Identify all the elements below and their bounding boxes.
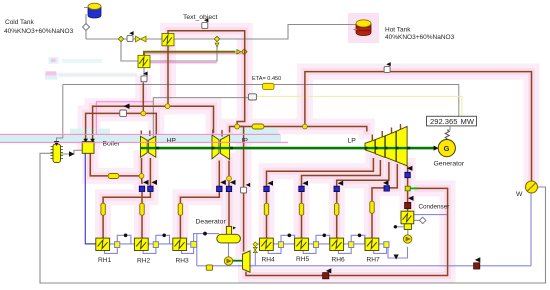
- heat exchanger HX1: [162, 34, 174, 46]
- MW display box: [427, 116, 477, 126]
- turbine HP: [141, 131, 156, 158]
- svg-text:LP: LP: [348, 138, 357, 145]
- pipe IP exhaust left to RH3: [180, 161, 219, 239]
- magenta highlight overlay: [0, 134, 288, 142]
- feed line RH4-RH7: [255, 243, 383, 245]
- svg-text:W: W: [516, 191, 523, 198]
- grey signal lines (power / eta): [57, 85, 459, 143]
- boiler inlet arrows: [83, 139, 95, 143]
- valve under HX2 flag: [141, 71, 148, 81]
- valve VE7 to RH7: [370, 201, 374, 213]
- shaft dashes: [156, 147, 410, 150]
- feed line RH1-RH3: [96, 243, 191, 245]
- pipe LP extraction 2 to RH5: [302, 160, 381, 238]
- RH5: [295, 234, 330, 254]
- svg-text:Hot Tank: Hot Tank: [385, 27, 411, 34]
- valve VE4 to RH4: [264, 203, 268, 215]
- receiver to boiler link: [61, 150, 83, 154]
- pipe dotB to boiler: [93, 106, 168, 141]
- ETA display box: [263, 83, 275, 89]
- wire cold tank down: [85, 14, 87, 39]
- pipe dotA to HP inlet: [143, 113, 156, 135]
- arrow lavender red square: [475, 257, 481, 262]
- pipe condenser cooling loop: [246, 188, 448, 275]
- svg-text:RH1: RH1: [98, 257, 112, 264]
- svg-text:40%KNO3+60%NaNO3: 40%KNO3+60%NaNO3: [385, 34, 455, 41]
- svg-text:RH3: RH3: [176, 258, 190, 265]
- deaerator drum: [217, 226, 241, 243]
- wire eta to receiver: [57, 85, 63, 143]
- boiler: [82, 142, 94, 154]
- RH3: [173, 232, 219, 254]
- sensor P2 HP extraction right: [148, 186, 153, 191]
- svg-text:RH2: RH2: [137, 258, 151, 265]
- arrow HP exhaust right: [152, 180, 158, 185]
- arrow IP exhaust right: [230, 180, 236, 185]
- RH1: [96, 234, 131, 254]
- pipe LP extraction 4 to RH7: [372, 164, 397, 238]
- pipe IP exhaust right to deaerator: [228, 161, 230, 227]
- brown steam/salt pipes: [86, 31, 532, 276]
- green dash at condenser loop: [411, 187, 418, 189]
- flow element F2 bottom steam line: [323, 273, 329, 279]
- royal blue feedwater from boiler: [85, 153, 96, 244]
- svg-text:RH5: RH5: [296, 256, 310, 263]
- condenser diamond: [419, 217, 426, 223]
- node C cold reheat: [139, 174, 144, 179]
- drum to pump: [228, 243, 230, 257]
- RH2: [134, 234, 169, 254]
- arrow IP exhaust left: [220, 180, 226, 185]
- arrow above condenser: [408, 196, 414, 201]
- W pump: [526, 181, 538, 193]
- svg-text:Condenser: Condenser: [419, 204, 450, 211]
- svg-text:MW: MW: [461, 117, 475, 126]
- flag on W pump line: [384, 62, 391, 72]
- condensate pump to RH7: [388, 247, 408, 258]
- feedwater heaters RH1-RH7: [96, 232, 389, 254]
- pipe dotA to boiler: [86, 113, 144, 141]
- svg-text:G: G: [444, 144, 450, 153]
- arrow RH5 line: [303, 181, 309, 186]
- generator spring link: [445, 130, 449, 141]
- wire junction down to HX2: [121, 39, 138, 61]
- valve VE2 to RH2: [140, 203, 144, 215]
- arrow bottom brown line: [326, 268, 332, 273]
- hot tank: [354, 20, 372, 36]
- junction sensor above condenser: [405, 186, 410, 191]
- arrow RH4 line: [268, 181, 274, 186]
- wire under MW box: [447, 126, 450, 130]
- arrow on boiler top line: [124, 104, 130, 110]
- recirc drop valve: [253, 247, 257, 252]
- arrow HP exhaust left: [143, 180, 149, 185]
- svg-text:Text_object: Text_object: [183, 14, 217, 21]
- yellow down arrow under junction: [215, 43, 219, 47]
- sensor P7 LP extraction 3: [334, 186, 339, 191]
- pipe boiler reheat: [90, 153, 141, 176]
- RH labels: [98, 256, 380, 265]
- wire HX2 bottom to valve: [143, 68, 145, 76]
- pipe crossover IP-LP: [230, 127, 367, 133]
- green shaft deaerator pump: [233, 260, 243, 262]
- faint highlighted annotations: [45, 57, 137, 79]
- valve VE5 to RH5: [299, 203, 303, 215]
- svg-text:RH6: RH6: [332, 257, 346, 264]
- condenser diamond link: [414, 219, 420, 221]
- pipe BFP turbine steam: [237, 127, 244, 252]
- deaerator pump: [224, 257, 232, 265]
- olive hot-salt line: [144, 52, 236, 56]
- sensor P5 LP extraction 1: [264, 186, 269, 191]
- sensor P3 IP extraction left: [217, 186, 222, 191]
- pipe HX1 to dotB: [167, 46, 169, 106]
- Text_object flag: [202, 18, 209, 28]
- turbine LP multistage: [365, 124, 407, 166]
- arrow RH7 line: [383, 180, 389, 185]
- node A HP inlet branch: [141, 111, 146, 116]
- grey molten-salt loop wires: [86, 14, 357, 76]
- BFP turbine: [243, 251, 251, 272]
- valve V1 bowtie: [136, 36, 147, 42]
- dot on deaerator feed line: [203, 232, 207, 236]
- valve VE3 to RH3: [178, 203, 182, 215]
- wire HX2 right loop up: [150, 47, 217, 61]
- pipe LP exhaust to condenser: [407, 166, 409, 211]
- svg-text:292.365: 292.365: [430, 117, 457, 126]
- lavender condensate lines: [96, 193, 531, 266]
- pipe HP exhaust right to RH1: [103, 158, 150, 238]
- white square on boiler second line: [120, 110, 127, 117]
- pipe HP exhaust left to RH2: [141, 158, 144, 238]
- yellow signal line: [257, 96, 462, 116]
- pink halos under hot (brown) pipes: [86, 13, 532, 276]
- condenser: [401, 211, 414, 229]
- sensor P8 LP extraction 4: [384, 186, 389, 191]
- svg-text:Generator: Generator: [434, 161, 465, 168]
- arrow into receiver: [54, 141, 59, 146]
- valve VE1 to RH1: [101, 203, 105, 215]
- condenser to pump: [407, 230, 409, 235]
- green shaft: [148, 147, 436, 149]
- generator G1: [438, 140, 455, 157]
- valve VE6 to RH6: [335, 203, 339, 215]
- svg-text:Boiler: Boiler: [103, 141, 121, 148]
- pipe to W pump: [305, 72, 532, 181]
- main condensate line: [197, 265, 531, 267]
- olive diamond: [242, 49, 247, 55]
- heat exchanger HX2: [138, 55, 150, 67]
- hotwell level tap: [396, 226, 404, 228]
- wire junction to valve and HX1: [121, 38, 162, 40]
- yellow diamond junctions on salt line: [118, 36, 123, 41]
- valve V1 actuator flag: [127, 31, 134, 41]
- svg-text:40%KNO3+60%NaNO3: 40%KNO3+60%NaNO3: [4, 28, 74, 35]
- node D IP extraction: [227, 176, 232, 181]
- svg-text:HP: HP: [167, 138, 177, 145]
- wire to junction: [86, 38, 121, 40]
- valve crossover oval: [252, 124, 264, 129]
- wire HP speed sensor: [153, 98, 248, 141]
- node F crossover riser: [303, 124, 308, 129]
- extraction black arrows: [143, 166, 480, 274]
- node B superheater outlet: [165, 104, 170, 109]
- pipe LP extraction 3 to RH6: [337, 162, 389, 238]
- sensor P4 IP extraction right: [226, 186, 231, 191]
- pipe LP extraction 1 to RH4: [267, 158, 374, 238]
- wire eta bus: [63, 85, 459, 117]
- white diamond on cold tank line: [83, 24, 90, 31]
- receiver (hatched heater): [51, 144, 64, 163]
- arrow before generator: [434, 146, 439, 151]
- pipe HX2 valve to dotA: [142, 83, 144, 114]
- condenser right line: [414, 214, 448, 216]
- svg-text:Deaerator: Deaerator: [196, 219, 227, 226]
- W pump drop: [530, 193, 532, 266]
- condensate pump: [403, 235, 411, 243]
- wire HX1 to hot tank: [174, 25, 357, 40]
- pipe HX1 reheat loop: [168, 31, 245, 127]
- recirc drop diamond junction: [253, 242, 258, 247]
- magenta highlight lines: [96, 54, 244, 134]
- grey cooling water loop: [40, 153, 546, 283]
- turbine IP: [212, 130, 230, 160]
- sensor P9 LP exhaust: [405, 172, 410, 177]
- flow element F3 condensate line: [474, 263, 480, 269]
- flow element F1 condenser inlet: [405, 202, 411, 208]
- pipe dotB to IP inlet: [168, 106, 214, 133]
- svg-text:RH4: RH4: [262, 257, 276, 264]
- signal converter box: [248, 94, 256, 100]
- valve reheat oval: [108, 174, 119, 179]
- olive arrow: [237, 50, 241, 54]
- BFP steam flag: [241, 183, 251, 193]
- RH6: [330, 234, 365, 254]
- sensor P1 HP extraction left: [139, 186, 144, 191]
- cyan selection band across turbine row: [0, 135, 281, 142]
- arrow RH7 drain: [394, 255, 399, 260]
- cold tank: [84, 3, 101, 18]
- RH4: [260, 234, 295, 254]
- arrow LP exhaust: [407, 166, 413, 171]
- pump recirculation: [196, 234, 198, 266]
- arrow RH6 line: [338, 181, 344, 186]
- inner pink halos: [86, 31, 532, 276]
- green shaft overlay: [140, 147, 436, 149]
- sensor P6 LP extraction 2: [299, 186, 304, 191]
- svg-text:IP: IP: [242, 138, 249, 145]
- svg-text:ETA= 0.450: ETA= 0.450: [252, 76, 281, 82]
- svg-text:Cold Tank: Cold Tank: [5, 19, 35, 26]
- node E crossover tap: [235, 124, 240, 129]
- RH7: [365, 238, 389, 253]
- svg-text:RH7: RH7: [367, 257, 381, 264]
- recirculation valve: [206, 265, 212, 270]
